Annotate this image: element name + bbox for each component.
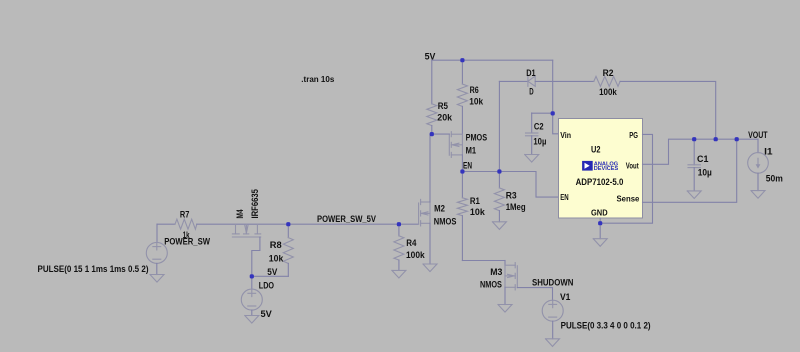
wire GND pin + PG loop: [599, 218, 601, 223]
pmos M1: [449, 132, 462, 158]
current source I1: [748, 139, 769, 190]
node dot 5V/R6: [460, 58, 464, 62]
diode D1: [528, 76, 535, 86]
svg-text:M1: M1: [466, 146, 477, 157]
resistor R7: [175, 219, 197, 229]
wire EN net: [462, 172, 558, 198]
node dot 5V/LDO: [250, 274, 254, 278]
svg-text:R4: R4: [406, 238, 417, 249]
voltage source V1: [542, 288, 563, 339]
ground U2 GND: [593, 223, 607, 246]
svg-text:10k: 10k: [469, 97, 483, 108]
wire D line: [499, 80, 528, 82]
svg-text:I1: I1: [764, 146, 773, 157]
wire Sense: [643, 139, 737, 202]
wire R7 to M4: [197, 223, 399, 225]
svg-text:10k: 10k: [470, 207, 486, 218]
capacitor C1: [688, 139, 700, 191]
svg-text:R2: R2: [603, 68, 614, 79]
resistor R6: [457, 60, 467, 134]
voltage source POWER_SW: [146, 224, 167, 274]
svg-text:5V: 5V: [261, 309, 273, 320]
svg-text:R5: R5: [438, 101, 449, 112]
svg-text:NMOS: NMOS: [434, 217, 457, 228]
ground M3: [498, 305, 512, 313]
svg-text:R8: R8: [270, 240, 283, 251]
ground R4: [392, 270, 406, 278]
svg-text:C1: C1: [697, 154, 709, 165]
svg-text:5V: 5V: [425, 51, 436, 62]
svg-text:10µ: 10µ: [698, 167, 712, 178]
wire R2 to VOUT: [620, 81, 716, 139]
svg-text:R7: R7: [180, 209, 190, 220]
node dot EN/R3: [497, 169, 501, 173]
wire M3 source to ground: [504, 287, 506, 304]
svg-text:Vin: Vin: [560, 130, 571, 140]
svg-text:SHUDOWN: SHUDOWN: [532, 278, 573, 289]
node dot Vin/C2: [551, 111, 555, 115]
wire 5V LDO row: [252, 275, 288, 277]
svg-text:NMOS: NMOS: [480, 279, 502, 290]
ground C2: [525, 155, 539, 163]
IC U2 box: [559, 119, 643, 219]
svg-text:U2: U2: [591, 145, 601, 156]
svg-text:.tran 10s: .tran 10s: [301, 75, 335, 84]
node dot VOUT/C1: [692, 137, 696, 141]
svg-text:C2: C2: [534, 121, 544, 132]
ground M2: [423, 264, 437, 272]
nmos M2: [419, 199, 430, 226]
wire Vout to VOUT rail: [643, 139, 759, 164]
logo Analog Devices: [582, 161, 619, 172]
svg-text:M4: M4: [235, 209, 246, 219]
ground R3: [492, 222, 506, 230]
svg-text:1Meg: 1Meg: [506, 202, 526, 213]
svg-text:D1: D1: [526, 68, 536, 79]
svg-text:100k: 100k: [406, 250, 425, 261]
node dot VOUT/R2: [714, 137, 718, 141]
ground I1: [751, 191, 765, 199]
node dot PSW5V/R8: [286, 222, 290, 226]
wire M2 drain up: [430, 134, 432, 202]
svg-text:IRF6635: IRF6635: [250, 189, 261, 219]
svg-text:POWER_SW_5V: POWER_SW_5V: [317, 214, 376, 225]
svg-text:POWER_SW: POWER_SW: [164, 236, 211, 247]
svg-text:10k: 10k: [269, 253, 284, 264]
resistor R5: [427, 60, 437, 134]
svg-text:R3: R3: [506, 190, 517, 201]
svg-text:100k: 100k: [599, 87, 617, 98]
svg-text:D: D: [529, 87, 533, 98]
wire M1 gate: [432, 133, 450, 135]
svg-text:PULSE(0 3.3 4 0 0 0.1 2): PULSE(0 3.3 4 0 0 0.1 2): [561, 320, 651, 331]
svg-text:LDO: LDO: [259, 281, 275, 292]
node dot EN/R1: [460, 169, 464, 173]
svg-text:Vout: Vout: [626, 161, 639, 171]
nmos M4 rotated: [232, 224, 260, 237]
svg-text:5V: 5V: [267, 267, 277, 278]
node dot GND: [598, 221, 602, 225]
voltage source LDO: [241, 276, 262, 315]
ground V1: [546, 339, 560, 347]
ground C1: [687, 191, 701, 199]
wire SHUDOWN: [517, 287, 552, 289]
node dot VOUT/Sense: [735, 137, 739, 141]
svg-text:R6: R6: [470, 85, 479, 96]
resistor R4: [394, 224, 404, 270]
resistor R2: [594, 76, 620, 86]
svg-text:Sense: Sense: [617, 193, 640, 203]
wire D1 to R2: [535, 80, 594, 82]
ground POWER_SW: [150, 275, 164, 283]
resistor R3: [494, 172, 504, 222]
svg-text:M3: M3: [490, 267, 502, 278]
svg-text:PULSE(0 15 1 1ms 1ms 0.5 2): PULSE(0 15 1 1ms 1ms 0.5 2): [38, 264, 149, 275]
wire R1 to M3: [462, 260, 505, 262]
wire C2 branch: [532, 112, 553, 114]
svg-text:DEVICES: DEVICES: [594, 166, 619, 172]
svg-text:ADP7102-5.0: ADP7102-5.0: [576, 177, 624, 188]
svg-text:EN: EN: [463, 161, 472, 172]
svg-text:R1: R1: [470, 196, 481, 207]
wire 5V rail top: [432, 59, 553, 61]
resistor R8: [283, 224, 293, 276]
svg-text:V1: V1: [560, 292, 571, 303]
svg-text:10µ: 10µ: [533, 136, 546, 147]
wire M1 drain to EN: [461, 155, 463, 172]
svg-text:20k: 20k: [437, 113, 452, 124]
wire Vin drop: [553, 60, 559, 134]
svg-text:PMOS: PMOS: [466, 133, 488, 144]
capacitor C2: [526, 113, 538, 155]
ground LDO: [245, 316, 259, 324]
wire D riser: [498, 81, 500, 171]
svg-text:M2: M2: [434, 204, 445, 215]
resistor R1: [457, 172, 467, 261]
wire M2 gate lead: [399, 223, 419, 225]
svg-text:GND: GND: [591, 208, 608, 218]
svg-text:EN: EN: [560, 192, 569, 202]
nmos M3 mirrored: [505, 261, 517, 290]
svg-text:PG: PG: [629, 130, 638, 140]
wire M4 gate jog: [252, 237, 260, 276]
wire M2 source down: [429, 223, 431, 264]
node dot PSW5V/R4: [397, 222, 401, 226]
wire POWER_SW row: [157, 223, 175, 225]
svg-text:50m: 50m: [766, 174, 783, 185]
node dot R5/M1gate: [430, 132, 434, 136]
